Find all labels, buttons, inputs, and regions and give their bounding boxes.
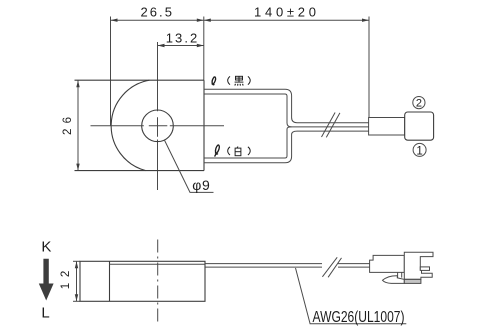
latch shaded strip [404, 279, 421, 283]
extension line left (arc extremity) [110, 17, 112, 126]
horizontal centerline [91, 125, 225, 127]
label ℓ (black wire) [212, 77, 216, 85]
paren ( for white label [228, 147, 230, 155]
wire break symbol (top view) [322, 113, 336, 138]
dash-dot centerline [157, 240, 159, 324]
body bottom edge (with 26-dim extension) [75, 170, 205, 172]
connector housing (side) [404, 252, 433, 279]
AWG leader line [296, 268, 407, 324]
kanji white 白 [235, 147, 241, 156]
connector retainer (side) [370, 255, 405, 272]
dimension 26.5 line [111, 19, 204, 21]
latch ticks [397, 272, 399, 277]
wire break symbol (side view) [322, 257, 337, 277]
side body outline [80, 261, 205, 301]
latch lever arm (side) [383, 276, 405, 284]
hole circle φ9 [142, 110, 174, 142]
svg-text:2: 2 [416, 98, 422, 110]
side wire pair [205, 263, 322, 265]
vertical centerline through hole (also 13.2 extension) [157, 42, 159, 190]
paren ) for white label [248, 147, 250, 155]
paren ) for black label [248, 76, 250, 84]
top lead wire (black) [204, 89, 369, 122]
svg-text:φ9: φ9 [192, 177, 210, 193]
svg-text:K: K [41, 239, 51, 256]
connector housing (plan) [405, 112, 434, 140]
dimension 13.2 line [158, 45, 204, 47]
kanji black 黒 [235, 76, 244, 85]
body round left side arc [111, 80, 149, 170]
svg-text:26: 26 [62, 117, 74, 135]
svg-text:13.2: 13.2 [166, 31, 198, 46]
dimension 140±20 line [204, 19, 369, 21]
circled 2 [413, 97, 425, 109]
circled 1 [413, 143, 426, 156]
K-L thick arrow [39, 259, 54, 301]
svg-text:AWG26(UL1007): AWG26(UL1007) [313, 309, 405, 326]
svg-text:12: 12 [60, 271, 72, 290]
dimension 12 line [76, 261, 78, 301]
body top edge (with 26-dim extension) [75, 79, 205, 81]
φ9 leader line [164, 140, 213, 192]
svg-text:140±20: 140±20 [254, 4, 316, 19]
12 extension top [73, 260, 80, 262]
12 extension bottom [73, 300, 80, 302]
crimp rectangle (plan) [369, 118, 405, 136]
svg-text:26.5: 26.5 [140, 4, 172, 19]
body right edge [203, 80, 205, 170]
side body flange line [110, 263, 206, 265]
svg-text:L: L [41, 304, 49, 321]
side body divider [109, 261, 111, 301]
paren ( for black label [228, 76, 230, 84]
dimension 26 vertical line [77, 80, 79, 170]
housing nub [420, 267, 429, 271]
extension line at connector (140 right end) [368, 17, 370, 118]
label ℓ (white wire) [215, 145, 220, 157]
extension line shared at body right edge [203, 17, 205, 81]
svg-text:1: 1 [416, 145, 422, 157]
merged pair center line [292, 126, 369, 128]
bottom lead wire (white) [204, 131, 369, 163]
